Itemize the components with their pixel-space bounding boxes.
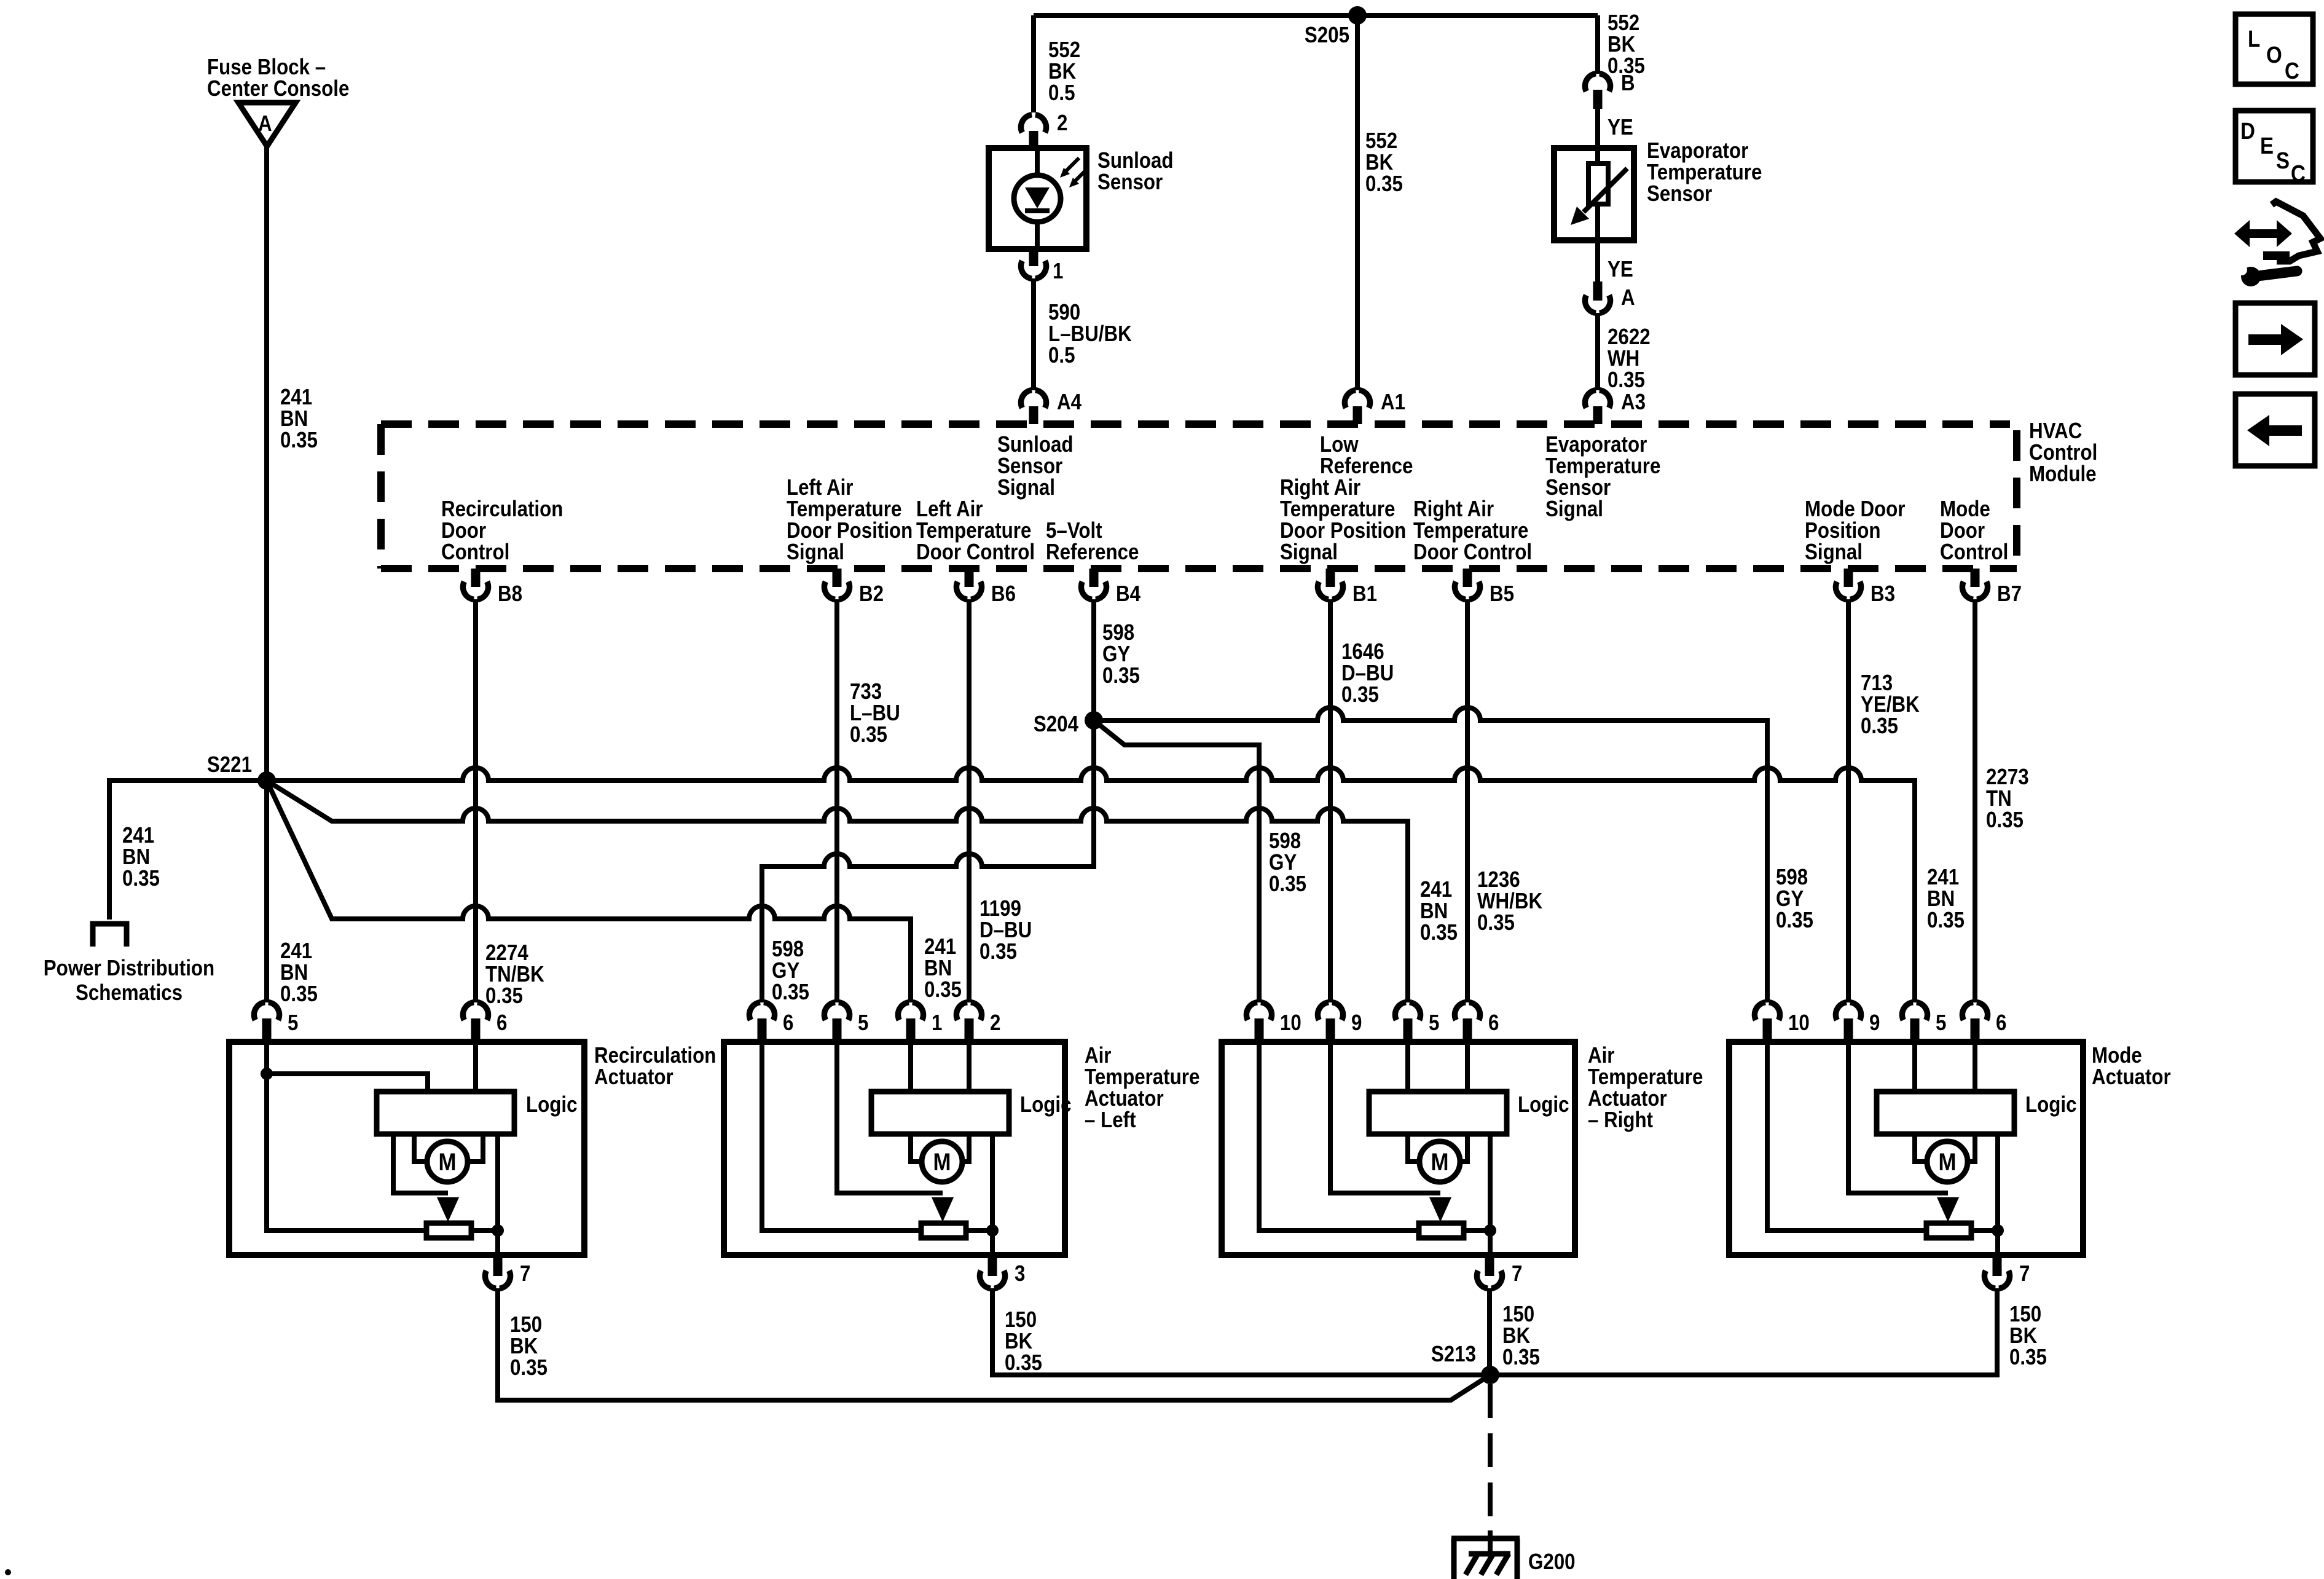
svg-text:Door Control: Door Control (916, 539, 1035, 564)
wire 150 BK from mode pin 7 to S213 (1490, 1288, 1997, 1375)
photodiode (sunload sensor) (1014, 148, 1061, 249)
logic label (air temp right) (1518, 1092, 1569, 1117)
svg-text:0.35: 0.35 (1269, 871, 1306, 896)
svg-text:0.35: 0.35 (485, 983, 523, 1008)
sunload sensor label (1097, 148, 1174, 194)
air temp actuator left label (1085, 1042, 1199, 1132)
svg-text:S204: S204 (1034, 711, 1078, 736)
wire 241 BN from fuse block A through S221 to recirculation actuator pin 5 (264, 146, 269, 1002)
svg-text:YE: YE (1608, 256, 1633, 282)
svg-text:Signal: Signal (1280, 539, 1338, 564)
svg-text:7: 7 (1512, 1261, 1522, 1286)
air temp actuator left pin 1 (898, 1002, 942, 1042)
mode actuator box (1729, 1042, 2083, 1255)
mode actuator label (2092, 1042, 2171, 1089)
evaporator sensor pin B (1585, 70, 1635, 109)
wire label 2622 WH 0.35 (1608, 324, 1651, 392)
svg-text:B3: B3 (1871, 581, 1895, 606)
svg-text:S221: S221 (207, 752, 252, 777)
wire 598 GY from S204 to mode actuator pin 10 (1094, 707, 1767, 1002)
icon connector repair (double arrow, outline, wrench) (2234, 202, 2320, 286)
svg-text:0.35: 0.35 (510, 1355, 548, 1380)
wire 552 BK 0.35 from S205 to A1 (1355, 15, 1360, 390)
svg-text:A: A (1621, 285, 1635, 310)
module label left air temperature door control (916, 496, 1035, 564)
module label low reference (1320, 431, 1413, 478)
svg-text:B: B (1621, 70, 1635, 95)
svg-text:0.35: 0.35 (924, 977, 962, 1002)
wire 552 BK 0.35 to evaporator sensor pin B (1595, 15, 1600, 74)
air temp actuator right pin 10 (1246, 1002, 1301, 1042)
HVAC control module label (2029, 418, 2097, 486)
svg-text:Logic: Logic (2025, 1092, 2077, 1117)
svg-text:0.35: 0.35 (1861, 713, 1898, 738)
wire label 150 BK 0.35 (left) (1005, 1307, 1042, 1375)
svg-text:O: O (2266, 42, 2282, 68)
svg-text:0.35: 0.35 (1341, 682, 1379, 707)
wire label 1236 WH/BK 0.35 (1477, 867, 1542, 935)
wire 241 BN from S221 to air temp actuator right pin 5 (267, 781, 1408, 1002)
splice S221 (207, 752, 276, 790)
recirculation actuator pin 6 (463, 1002, 507, 1042)
sunload sensor box (989, 148, 1086, 249)
wire 241 BN from S221 to air temp actuator left pin 1 (267, 781, 911, 1002)
svg-text:Actuator: Actuator (594, 1064, 673, 1089)
module label evaporator temperature sensor signal (1545, 431, 1660, 521)
svg-text:B1: B1 (1352, 581, 1377, 606)
svg-text:S205: S205 (1305, 22, 1349, 47)
wire YE to evaporator sensor (1598, 109, 1633, 148)
svg-text:0.35: 0.35 (1608, 367, 1645, 392)
svg-text:Signal: Signal (997, 474, 1055, 500)
svg-text:L: L (2248, 26, 2260, 52)
HVAC module pin B6 (956, 569, 1016, 606)
module label 5-volt reference (1046, 518, 1139, 564)
wire label 590 L-BU/BK 0.5 (1048, 299, 1132, 368)
fuse block connector A (triangle) (238, 103, 296, 146)
HVAC module pin A3 (1585, 389, 1646, 424)
mode actuator internals (logic, motor M, position resistor) (1767, 1042, 2014, 1255)
svg-text:6: 6 (497, 1010, 507, 1035)
svg-text:Logic: Logic (1020, 1092, 1072, 1117)
wire 1646 D-BU from B1 to air temp actuator right pin 9 (1328, 599, 1333, 1002)
svg-text:Signal: Signal (1805, 539, 1863, 564)
svg-text:B7: B7 (1997, 581, 2022, 606)
svg-text:0.35: 0.35 (1420, 919, 1458, 945)
power distribution off-page bracket (90, 921, 129, 947)
air temp actuator left pin 2 (956, 1002, 1000, 1042)
svg-text:A1: A1 (1381, 389, 1405, 414)
mode actuator pin 5 (1902, 1002, 1946, 1042)
svg-text:0.35: 0.35 (280, 427, 318, 452)
svg-text:S213: S213 (1431, 1341, 1476, 1366)
logic label (air temp left) (1020, 1092, 1072, 1117)
svg-text:A4: A4 (1057, 389, 1082, 414)
svg-text:0.35: 0.35 (1776, 907, 1813, 932)
wire label 552 BK 0.5 (1048, 37, 1080, 105)
recirculation actuator internals (logic, motor M, position resistor) (261, 1042, 514, 1255)
recirculation actuator box (229, 1042, 584, 1255)
svg-text:0.35: 0.35 (2009, 1344, 2047, 1369)
svg-text:A: A (258, 111, 272, 136)
svg-text:Control: Control (441, 539, 509, 564)
wire label 1646 D-BU 0.35 (1341, 639, 1394, 707)
power distribution label (44, 955, 214, 1005)
HVAC module pin A4 (1021, 389, 1082, 424)
sunload sensor pin 1 (1021, 249, 1063, 283)
air temp actuator right pin 9 (1317, 1002, 1362, 1042)
svg-text:0.5: 0.5 (1048, 80, 1075, 105)
wire 590 L-BU/BK 0.5 from sunload pin 1 to A4 (1031, 278, 1036, 390)
wire to ground G200 (dashed) (1488, 1384, 1493, 1554)
wire label 150 BK 0.35 (recirc) (510, 1312, 548, 1380)
wire 1236 WH/BK from B5 to air temp actuator right pin 6 (1465, 599, 1470, 1002)
wire 2622 WH 0.35 from pin A to A3 (1595, 313, 1600, 390)
wire 733 L-BU from B2 to air temp actuator left pin 5 (834, 599, 839, 1002)
svg-text:2: 2 (990, 1010, 1000, 1035)
svg-text:Signal: Signal (787, 539, 844, 564)
air temperature actuator right box (1222, 1042, 1575, 1255)
wire label 241 BN 0.35 (recirc pin 5) (280, 938, 318, 1006)
evaporator sensor pin A (1585, 282, 1635, 313)
svg-text:– Right: – Right (1588, 1107, 1653, 1132)
recirculation actuator pin 5 (254, 1002, 298, 1042)
svg-text:Logic: Logic (526, 1092, 578, 1117)
svg-text:Actuator: Actuator (2092, 1064, 2171, 1089)
wire label 552 BK 0.35 (S205 to A1) (1365, 128, 1403, 196)
svg-text:6: 6 (783, 1010, 793, 1035)
svg-text:M: M (1939, 1149, 1957, 1176)
HVAC module pin B8 (463, 569, 522, 606)
svg-text:0.35: 0.35 (122, 865, 160, 891)
svg-text:Logic: Logic (1518, 1092, 1569, 1117)
sunload sensor pin 2 (1021, 110, 1067, 148)
svg-text:C: C (2291, 161, 2306, 187)
air temp actuator right label (1588, 1042, 1703, 1132)
HVAC module pin B7 (1962, 569, 2022, 606)
wire 241 BN from S221 to mode actuator pin 5 (267, 768, 1915, 1002)
wire label 241 BN 0.35 (fuse block wire) (280, 384, 318, 452)
evaporator temperature sensor box (1554, 148, 1634, 240)
wire label 2274 TN/BK 0.35 (485, 940, 544, 1008)
svg-text:Power Distribution: Power Distribution (44, 955, 214, 980)
svg-text:0.35: 0.35 (280, 981, 318, 1006)
icon LOC (2236, 14, 2313, 84)
svg-text:0.35: 0.35 (772, 979, 809, 1004)
svg-text:0.35: 0.35 (1502, 1344, 1540, 1369)
svg-text:1: 1 (1053, 258, 1063, 283)
wire 713 YE/BK from B3 to mode actuator pin 9 (1846, 599, 1851, 1002)
svg-text:0.35: 0.35 (850, 722, 887, 747)
svg-text:Reference: Reference (1046, 539, 1139, 564)
air temp actuator left pin 5 (824, 1002, 868, 1042)
svg-text:7: 7 (2019, 1261, 2030, 1286)
svg-text:M: M (1431, 1149, 1449, 1176)
svg-text:9: 9 (1351, 1010, 1362, 1035)
wire label 241 BN 0.35 (right pin 5) (1420, 876, 1458, 945)
module label mode door position signal (1805, 496, 1906, 564)
wire label 598 GY 0.35 (left pin 6) (772, 936, 809, 1004)
thermistor (evaporator temperature sensor) (1571, 148, 1627, 240)
svg-text:B6: B6 (991, 581, 1016, 606)
module label left air temperature door position signal (787, 474, 913, 564)
svg-text:10: 10 (1280, 1010, 1301, 1035)
svg-text:3: 3 (1015, 1261, 1025, 1286)
svg-text:7: 7 (520, 1261, 530, 1286)
svg-text:0.35: 0.35 (1927, 907, 1965, 932)
wire 150 BK from left pin 3 to S213 (992, 1288, 1490, 1375)
module label right air temperature door control (1413, 496, 1532, 564)
svg-text:G200: G200 (1528, 1549, 1576, 1574)
air temp actuator left pin 6 (749, 1002, 793, 1042)
wire 598 GY from S204 to air temp actuator right pin 10 (1094, 720, 1259, 1002)
recirculation actuator label (594, 1042, 716, 1089)
svg-text:2: 2 (1057, 110, 1067, 135)
icon arrow left (2236, 394, 2315, 466)
wire 2274 TN/BK from B8 to recirculation actuator pin 6 (473, 599, 478, 1002)
svg-text:10: 10 (1788, 1010, 1810, 1035)
svg-text:E: E (2260, 133, 2274, 159)
air temp actuator left pin 3 (979, 1255, 1025, 1288)
svg-text:B5: B5 (1490, 581, 1514, 606)
air temp actuator right pin 5 (1395, 1002, 1439, 1042)
mode actuator pin 9 (1835, 1002, 1880, 1042)
icon arrow right (2236, 303, 2315, 375)
svg-text:B8: B8 (498, 581, 522, 606)
splice S204 (1034, 711, 1103, 736)
svg-text:B4: B4 (1116, 581, 1140, 606)
wire label 2273 TN 0.35 (1986, 764, 2029, 832)
splice S205 (1305, 6, 1367, 47)
wire label 241 BN 0.35 (mode pin 5) (1927, 864, 1965, 932)
svg-text:C: C (2285, 58, 2299, 84)
wire 150 BK from recirc pin 7 to S213 (498, 1288, 1490, 1400)
mode actuator pin 7 (1984, 1255, 2030, 1288)
air temp actuator right pin 6 (1454, 1002, 1499, 1042)
HVAC module pin B1 (1317, 569, 1377, 606)
wire label 733 L-BU 0.35 (850, 679, 900, 747)
recirculation actuator pin 7 (485, 1255, 530, 1288)
fuse block label (207, 54, 349, 101)
svg-text:S: S (2276, 148, 2290, 174)
svg-text:0.5: 0.5 (1048, 342, 1075, 368)
svg-text:Schematics: Schematics (76, 980, 183, 1005)
svg-text:– Left: – Left (1085, 1107, 1136, 1132)
svg-text:YE: YE (1608, 114, 1633, 140)
HVAC control module box (dashed) (381, 424, 2017, 569)
wire label 598 GY 0.35 (right pin 10) (1269, 828, 1306, 896)
logic label (recirculation) (526, 1092, 578, 1117)
air temp actuator right internals (logic, motor M, position resistor) (1259, 1042, 1507, 1255)
svg-text:0.35: 0.35 (979, 939, 1017, 964)
wire label 713 YE/BK 0.35 (1861, 670, 1920, 738)
light arrows into photodiode (1060, 158, 1088, 187)
wire label 150 BK 0.35 (mode) (2009, 1301, 2047, 1369)
svg-text:Module: Module (2029, 461, 2097, 486)
evaporator sensor label (1647, 138, 1762, 206)
svg-text:0.35: 0.35 (1477, 910, 1515, 935)
svg-text:M: M (439, 1149, 457, 1176)
wire YE from evaporator sensor (1598, 240, 1633, 282)
svg-text:M: M (933, 1149, 951, 1176)
module label right air temperature door position signal (1280, 474, 1406, 564)
svg-text:5: 5 (288, 1010, 298, 1035)
wire 552 BK top bus from sunload sensor to evaporator sensor (1034, 13, 1598, 18)
mode actuator pin 10 (1754, 1002, 1809, 1042)
svg-text:0.35: 0.35 (1102, 663, 1140, 688)
mode actuator pin 6 (1962, 1002, 2006, 1042)
wire label 241 BN 0.35 (left pin 1) (924, 934, 962, 1002)
HVAC module pin B3 (1835, 569, 1895, 606)
svg-text:B2: B2 (859, 581, 884, 606)
wire 598 GY from B4 to splice S204 (1091, 599, 1096, 720)
wire 2273 TN from B7 to mode actuator pin 6 (1973, 599, 1977, 1002)
wire label 598 GY 0.35 (B4) (1102, 620, 1140, 688)
svg-text:0.35: 0.35 (1365, 171, 1403, 196)
HVAC module pin A1 (1345, 389, 1405, 424)
wire label 552 BK 0.35 (evap branch) (1608, 10, 1645, 78)
svg-text:A3: A3 (1621, 389, 1646, 414)
wire 552 BK 0.5 to sunload sensor pin 2 (1031, 15, 1036, 112)
svg-text:Sensor: Sensor (1647, 181, 1712, 206)
logic label (mode) (2025, 1092, 2077, 1117)
svg-text:Control: Control (1940, 539, 2008, 564)
wire label 598 GY 0.35 (mode pin 10) (1776, 864, 1813, 932)
svg-text:Door Control: Door Control (1413, 539, 1532, 564)
svg-text:5: 5 (1429, 1010, 1439, 1035)
svg-text:Signal: Signal (1545, 496, 1603, 521)
wire 1199 D-BU from B6 to air temp actuator left pin 2 (967, 599, 972, 1002)
svg-text:Sensor: Sensor (1097, 169, 1163, 194)
wire 598 GY from S204 to air temp actuator left pin 6 (762, 720, 1094, 1002)
HVAC module pin B4 (1081, 569, 1140, 606)
wire 241 BN from S221 to power distribution (109, 781, 267, 919)
air temp actuator right pin 7 (1477, 1255, 1522, 1288)
icon DESC (2236, 111, 2313, 187)
svg-text:9: 9 (1869, 1010, 1880, 1035)
module label recirculation door control (441, 496, 563, 564)
svg-text:5: 5 (1936, 1010, 1946, 1035)
svg-text:5: 5 (858, 1010, 868, 1035)
splice S213 (1431, 1341, 1499, 1384)
svg-text:0.35: 0.35 (1986, 807, 2024, 832)
air temperature actuator left box (724, 1042, 1065, 1255)
svg-text:Center Console: Center Console (207, 76, 349, 101)
air temp actuator left internals (logic, motor M, position resistor) (762, 1042, 1009, 1255)
svg-text:0.35: 0.35 (1005, 1350, 1042, 1375)
svg-text:6: 6 (1488, 1010, 1499, 1035)
HVAC module pin B5 (1454, 569, 1514, 606)
wire 150 BK from right pin 7 to S213 (1487, 1288, 1492, 1375)
page period mark (5, 1569, 11, 1575)
svg-text:D: D (2240, 119, 2255, 144)
svg-text:6: 6 (1996, 1010, 2006, 1035)
svg-text:1: 1 (932, 1010, 942, 1035)
module label sunload sensor signal (997, 431, 1074, 500)
ground G200 (1451, 1538, 1576, 1579)
wire label 241 BN 0.35 (power distribution) (122, 822, 160, 891)
HVAC module pin B2 (824, 569, 884, 606)
module label mode door control (1940, 496, 2008, 564)
wire label 150 BK 0.35 (right) (1502, 1301, 1540, 1369)
wire label 1199 D-BU 0.35 (979, 896, 1032, 964)
